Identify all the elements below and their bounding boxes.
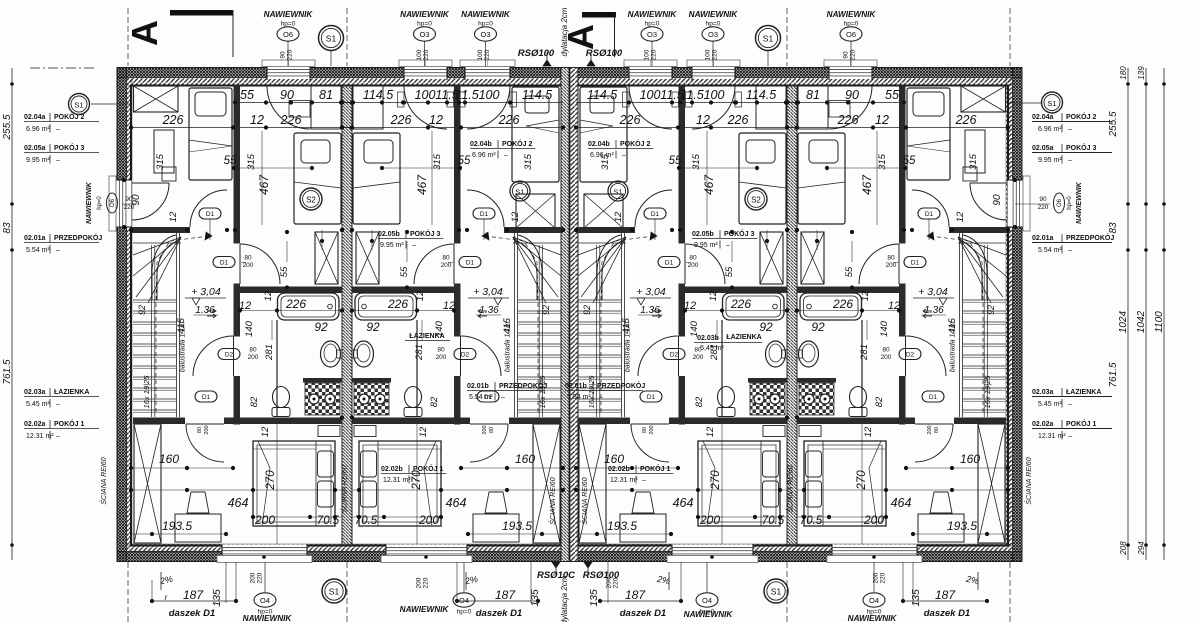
svg-text:100: 100 [477,49,484,60]
svg-text:467: 467 [415,174,429,195]
svg-text:200: 200 [699,513,720,527]
svg-text:140: 140 [244,320,255,337]
svg-text:187: 187 [495,588,516,602]
svg-text:90: 90 [845,88,859,102]
svg-text:220: 220 [651,49,658,60]
svg-text:226: 226 [955,113,977,127]
svg-text:02.04a: 02.04a [1032,114,1054,121]
svg-text:02.05b: 02.05b [692,231,714,238]
svg-text:D1: D1 [925,211,934,218]
svg-text:16x 19|25: 16x 19|25 [538,375,547,409]
svg-text:315: 315 [246,153,257,170]
svg-text:200: 200 [254,513,275,527]
svg-text:200: 200 [886,262,897,269]
svg-text:D1: D1 [206,211,215,218]
svg-text:90: 90 [280,51,287,59]
svg-text:–: – [56,247,60,254]
svg-text:daszek D1: daszek D1 [620,608,666,619]
svg-text:–: – [642,477,646,484]
svg-text:D2: D2 [670,351,679,358]
svg-text:220: 220 [850,49,857,60]
svg-text:ŁAZIENKA: ŁAZIENKA [1066,389,1101,396]
svg-text:226: 226 [730,297,751,311]
svg-text:193.5: 193.5 [162,519,192,533]
svg-text:80: 80 [197,427,203,433]
svg-text:55: 55 [885,88,899,102]
svg-text:–: – [599,394,603,401]
svg-text:270: 270 [265,470,277,491]
svg-text:200: 200 [441,262,452,269]
svg-text:1042: 1042 [1136,310,1147,333]
svg-text:80: 80 [244,255,252,262]
svg-text:464: 464 [891,496,912,510]
svg-text:02.01b: 02.01b [467,383,489,390]
svg-text:D2: D2 [906,351,915,358]
svg-text:02.02b: 02.02b [608,466,630,473]
svg-text:–: – [501,394,505,401]
svg-text:12: 12 [613,211,624,222]
svg-text:6.96 m²: 6.96 m² [26,126,50,133]
svg-text:6.96 m²: 6.96 m² [472,152,496,159]
svg-text:92: 92 [759,320,773,334]
svg-text:281: 281 [414,344,425,361]
svg-text:415: 415 [621,317,632,334]
svg-text:55: 55 [903,155,916,167]
svg-text:83: 83 [1108,222,1119,234]
svg-text:O4: O4 [869,596,879,605]
svg-text:467: 467 [257,174,271,195]
svg-text:220: 220 [124,204,135,211]
svg-text:12: 12 [415,290,426,301]
svg-text:PRZEDPOKÓJ: PRZEDPOKÓJ [54,233,102,242]
svg-text:160: 160 [515,452,535,466]
svg-text:464: 464 [673,496,694,510]
svg-text:RSØ100: RSØ100 [518,48,555,59]
svg-text:5,45 m²: 5,45 m² [700,345,724,352]
svg-text:S2: S2 [751,196,761,205]
svg-text:daszek D1: daszek D1 [924,608,970,619]
svg-text:415: 415 [947,317,958,334]
svg-text:S1: S1 [613,188,622,197]
svg-text:S1: S1 [771,587,782,597]
svg-text:O3: O3 [647,30,657,39]
svg-text:POKÓJ 3: POKÓJ 3 [410,229,440,238]
svg-text:70.5: 70.5 [355,515,378,527]
svg-text:+ 3,04: + 3,04 [191,286,221,298]
svg-text:POKÓJ 1: POKÓJ 1 [1066,419,1096,428]
svg-text:PRZEDPOKÓJ: PRZEDPOKÓJ [1066,233,1114,242]
svg-text:12.31 m²: 12.31 m² [610,477,638,484]
svg-text:5.54 m²: 5.54 m² [26,247,50,254]
svg-text:PRZEDPOKÓJ: PRZEDPOKÓJ [597,381,645,390]
svg-text:80: 80 [642,427,648,433]
svg-text:12: 12 [708,290,719,301]
svg-text:NAWIEWNIK: NAWIEWNIK [689,10,739,19]
svg-text:200: 200 [606,577,613,588]
svg-text:220: 220 [712,49,719,60]
svg-text:02.05a: 02.05a [1032,145,1054,152]
svg-text:NAWIEWNIK: NAWIEWNIK [827,10,877,19]
svg-text:16x 19|25: 16x 19|25 [983,375,992,409]
svg-text:82: 82 [429,396,440,407]
svg-text:9.95 m²: 9.95 m² [380,242,404,249]
svg-text:90: 90 [125,196,133,203]
svg-text:200: 200 [416,577,423,588]
svg-text:02.02b: 02.02b [381,466,403,473]
svg-text:80: 80 [437,347,445,354]
svg-text:100: 100 [479,88,500,102]
svg-text:294: 294 [1137,541,1146,556]
svg-text:220: 220 [880,572,887,583]
svg-text:200: 200 [693,354,704,361]
svg-text:114.5: 114.5 [746,88,776,102]
svg-text:226: 226 [387,297,408,311]
svg-text:NAWIEWNIK: NAWIEWNIK [848,614,898,622]
svg-text:200: 200 [873,572,880,583]
svg-text:–: – [1068,126,1072,133]
svg-text:100: 100 [415,88,436,102]
svg-text:D1: D1 [220,259,229,266]
svg-text:12: 12 [705,426,716,437]
svg-text:200: 200 [436,354,447,361]
svg-text:315: 315 [155,153,166,170]
svg-text:220: 220 [257,572,264,583]
svg-text:12: 12 [168,211,179,222]
svg-text:6.96 m²: 6.96 m² [1038,126,1062,133]
svg-text:9.95 m²: 9.95 m² [26,157,50,164]
svg-text:12: 12 [860,290,871,301]
svg-text:80: 80 [442,255,450,262]
svg-text:12.31 m²: 12.31 m² [383,477,411,484]
svg-text:12: 12 [510,211,521,222]
svg-text:O6: O6 [110,198,116,207]
svg-text:12: 12 [263,290,274,301]
svg-text:100: 100 [704,88,725,102]
svg-text:12: 12 [955,211,966,222]
svg-text:O3: O3 [708,30,718,39]
svg-text:270: 270 [710,470,722,491]
svg-text:S1: S1 [1047,99,1056,108]
svg-text:220: 220 [423,577,430,588]
svg-text:POKÓJ 3: POKÓJ 3 [1066,143,1096,152]
svg-text:200: 200 [927,425,933,434]
svg-text:5.45 m²: 5.45 m² [1038,401,1062,408]
svg-text:–: – [412,242,416,249]
svg-text:80: 80 [887,255,895,262]
svg-text:55: 55 [458,155,471,167]
svg-text:761.5: 761.5 [1108,362,1119,387]
svg-text:02.04b: 02.04b [470,141,492,148]
svg-text:160: 160 [960,452,980,466]
svg-text:761.5: 761.5 [2,359,13,384]
svg-text:–: – [1068,433,1072,440]
svg-text:200: 200 [418,513,439,527]
svg-text:55: 55 [724,266,735,277]
svg-text:200: 200 [881,354,892,361]
svg-text:daszek D1: daszek D1 [169,608,215,619]
svg-text:100: 100 [705,49,712,60]
svg-text:02.05b: 02.05b [378,231,400,238]
svg-text:255.5: 255.5 [1108,111,1119,137]
svg-text:16x 19|25: 16x 19|25 [587,375,596,409]
svg-text:dylatacja 2cm: dylatacja 2cm [560,575,569,622]
svg-text:100: 100 [416,49,423,60]
svg-text:S1: S1 [329,587,340,597]
svg-text:NAWIEWNIK: NAWIEWNIK [684,610,734,619]
svg-text:81: 81 [806,88,820,102]
svg-text:135: 135 [910,589,922,607]
svg-text:–: – [56,157,60,164]
svg-text:92: 92 [541,305,551,315]
svg-text:02.03b: 02.03b [697,335,719,342]
svg-text:5.54 m²: 5.54 m² [1038,247,1062,254]
svg-text:464: 464 [446,496,467,510]
svg-text:02.01a: 02.01a [1032,235,1054,242]
svg-text:9.95 m²: 9.95 m² [1038,157,1062,164]
svg-text:467: 467 [702,174,716,195]
svg-text:114.5: 114.5 [363,88,393,102]
svg-text:70.5: 70.5 [800,515,823,527]
svg-text:+ 3,04: + 3,04 [473,286,503,298]
svg-text:12: 12 [250,113,264,127]
svg-text:92: 92 [366,320,380,334]
svg-text:226: 226 [390,113,412,127]
svg-text:12: 12 [260,426,271,437]
svg-text:193.5: 193.5 [502,519,532,533]
svg-text:187: 187 [625,588,646,602]
svg-text:55: 55 [224,155,237,167]
svg-text:315: 315 [432,153,443,170]
svg-text:135: 135 [211,589,223,607]
svg-text:D2: D2 [461,351,470,358]
svg-text:55: 55 [669,155,682,167]
svg-text:ŚCIANA REI60: ŚCIANA REI60 [548,477,557,524]
svg-text:70.5: 70.5 [317,515,340,527]
svg-text:02.02a: 02.02a [24,421,46,428]
svg-text:415: 415 [176,317,187,334]
svg-text:255.5: 255.5 [2,114,13,140]
svg-text:55: 55 [844,266,855,277]
svg-text:02.01b: 02.01b [565,383,587,390]
svg-text:NAWIEWNIK: NAWIEWNIK [243,614,293,622]
svg-text:NAWIEWNIK: NAWIEWNIK [1076,181,1083,224]
svg-text:POKÓJ 1: POKÓJ 1 [54,419,84,428]
svg-text:ŚCIANA REI60: ŚCIANA REI60 [340,465,349,512]
svg-text:POKÓJ 1: POKÓJ 1 [640,464,670,473]
svg-text:1.36: 1.36 [924,305,944,316]
svg-text:D1: D1 [202,394,211,401]
svg-text:200: 200 [204,425,210,434]
svg-text:POKÓJ 2: POKÓJ 2 [620,139,650,148]
svg-text:187: 187 [183,588,204,602]
svg-text:POKÓJ 2: POKÓJ 2 [54,112,84,121]
svg-text:1024: 1024 [1118,310,1129,333]
svg-text:315: 315 [691,153,702,170]
svg-text:hp=0: hp=0 [457,609,472,616]
svg-text:–: – [504,152,508,159]
svg-text:+ 3,04: + 3,04 [918,286,948,298]
svg-text:281: 281 [859,344,870,361]
svg-text:80: 80 [249,347,257,354]
svg-text:135: 135 [588,589,600,607]
svg-text:200: 200 [688,262,699,269]
svg-text:02.04b: 02.04b [588,141,610,148]
svg-text:–: – [415,477,419,484]
svg-text:S2: S2 [306,196,316,205]
svg-text:92: 92 [137,305,147,315]
svg-text:O6: O6 [283,30,293,39]
svg-text:220: 220 [484,49,491,60]
svg-text:hp=0: hp=0 [97,196,103,210]
svg-text:114.5: 114.5 [522,88,552,102]
svg-text:180: 180 [1119,66,1128,80]
svg-text:90: 90 [992,194,1003,206]
svg-text:82: 82 [694,396,705,407]
svg-text:D1: D1 [651,211,660,218]
svg-text:1.36: 1.36 [479,305,499,316]
svg-text:ŁAZIENKA: ŁAZIENKA [54,389,89,396]
svg-text:220: 220 [423,49,430,60]
svg-text:200: 200 [243,262,254,269]
svg-text:D1: D1 [480,211,489,218]
svg-text:NAWIEWNIK: NAWIEWNIK [86,181,93,224]
svg-text:D2: D2 [225,351,234,358]
svg-text:–: – [56,126,60,133]
svg-text:02.02a: 02.02a [1032,421,1054,428]
svg-text:O6: O6 [846,30,856,39]
svg-text:02.03a: 02.03a [24,389,46,396]
svg-text:NAWIEWNIK: NAWIEWNIK [400,605,450,614]
svg-text:92: 92 [986,305,996,315]
svg-text:ŚCIANA REI60: ŚCIANA REI60 [580,477,589,524]
svg-text:+ 3,04: + 3,04 [636,286,666,298]
svg-text:90: 90 [843,51,850,59]
svg-text:12: 12 [863,426,874,437]
svg-text:220: 220 [287,49,294,60]
svg-text:S1: S1 [326,34,337,44]
svg-text:5.54 m²: 5.54 m² [469,394,493,401]
svg-text:226: 226 [832,297,853,311]
svg-text:70.5: 70.5 [762,515,785,527]
svg-text:55: 55 [279,266,290,277]
svg-text:–: – [1068,247,1072,254]
svg-text:464: 464 [228,496,249,510]
svg-text:193.5: 193.5 [607,519,637,533]
svg-text:POKÓJ 2: POKÓJ 2 [502,139,532,148]
svg-text:ŚCIANA REI60: ŚCIANA REI60 [99,457,108,504]
svg-text:81: 81 [319,88,333,102]
svg-text:140: 140 [879,320,890,337]
svg-text:–: – [56,401,60,408]
svg-text:220: 220 [613,577,620,588]
svg-text:S1: S1 [515,188,524,197]
svg-text:–: – [1068,401,1072,408]
svg-text:D1: D1 [665,259,674,266]
svg-text:02.04a: 02.04a [24,114,46,121]
svg-text:ŁAZIENKA: ŁAZIENKA [409,333,444,340]
svg-text:O3: O3 [480,30,490,39]
svg-text:187: 187 [935,588,956,602]
svg-text:S1: S1 [763,34,774,44]
svg-text:82: 82 [874,396,885,407]
svg-text:02.01a: 02.01a [24,235,46,242]
svg-text:9.95 m²: 9.95 m² [694,242,718,249]
svg-text:D1: D1 [466,259,475,266]
svg-text:114.5: 114.5 [587,88,617,102]
svg-text:–: – [1068,157,1072,164]
svg-text:139: 139 [1137,66,1146,80]
svg-text:02.03a: 02.03a [1032,389,1054,396]
svg-text:ŁAZIENKA: ŁAZIENKA [726,334,761,341]
svg-text:80: 80 [882,347,890,354]
svg-text:83: 83 [2,222,13,234]
svg-text:315: 315 [968,153,979,170]
svg-text:12: 12 [696,113,710,127]
svg-text:A: A [124,20,165,46]
svg-text:315: 315 [877,153,888,170]
svg-text:80: 80 [689,255,697,262]
svg-text:55: 55 [240,88,254,102]
svg-text:226: 226 [285,297,306,311]
svg-text:D1: D1 [911,259,920,266]
svg-text:160: 160 [604,452,624,466]
svg-text:55: 55 [399,266,410,277]
svg-text:–: – [56,433,60,440]
svg-text:D1: D1 [647,394,656,401]
svg-text:80: 80 [489,427,495,433]
svg-text:281: 281 [264,344,275,361]
svg-text:POKÓJ 3: POKÓJ 3 [54,143,84,152]
svg-text:92: 92 [314,320,328,334]
svg-text:200: 200 [482,425,488,434]
svg-text:5.45 m²: 5.45 m² [26,401,50,408]
svg-text:NAWIEWNIK: NAWIEWNIK [264,10,314,19]
svg-text:200: 200 [649,425,655,434]
svg-text:POKÓJ 1: POKÓJ 1 [413,464,443,473]
svg-text:5.54 m²: 5.54 m² [567,394,591,401]
svg-text:–: – [622,152,626,159]
svg-text:D1: D1 [929,394,938,401]
svg-text:hp=0: hp=0 [1067,196,1073,210]
svg-text:193.5: 193.5 [947,519,977,533]
svg-text:100: 100 [644,49,651,60]
svg-text:NAWIEWNIK: NAWIEWNIK [400,10,450,19]
svg-text:200: 200 [248,354,259,361]
svg-text:226: 226 [727,113,749,127]
svg-text:dylatacja 2cm: dylatacja 2cm [560,7,569,56]
svg-text:467: 467 [860,174,874,195]
svg-text:226: 226 [162,113,184,127]
svg-text:PRZEDPOKÓJ: PRZEDPOKÓJ [499,381,547,390]
svg-text:226: 226 [498,113,520,127]
svg-text:12: 12 [418,426,429,437]
svg-text:02.05a: 02.05a [24,145,46,152]
svg-text:NAWIEWNIK: NAWIEWNIK [461,10,511,19]
svg-text:POKÓJ 3: POKÓJ 3 [724,229,754,238]
svg-text:S1: S1 [74,101,83,110]
svg-text:16x 19|25: 16x 19|25 [142,375,151,409]
svg-text:200: 200 [250,572,257,583]
svg-text:100: 100 [640,88,661,102]
svg-text:80: 80 [934,427,940,433]
svg-text:–: – [726,242,730,249]
svg-text:12: 12 [429,113,443,127]
svg-text:6.96 m²: 6.96 m² [590,152,614,159]
svg-text:92: 92 [811,320,825,334]
svg-text:O3: O3 [419,30,429,39]
svg-text:315: 315 [523,153,534,170]
svg-text:ŚCIANA REI60: ŚCIANA REI60 [786,465,795,512]
